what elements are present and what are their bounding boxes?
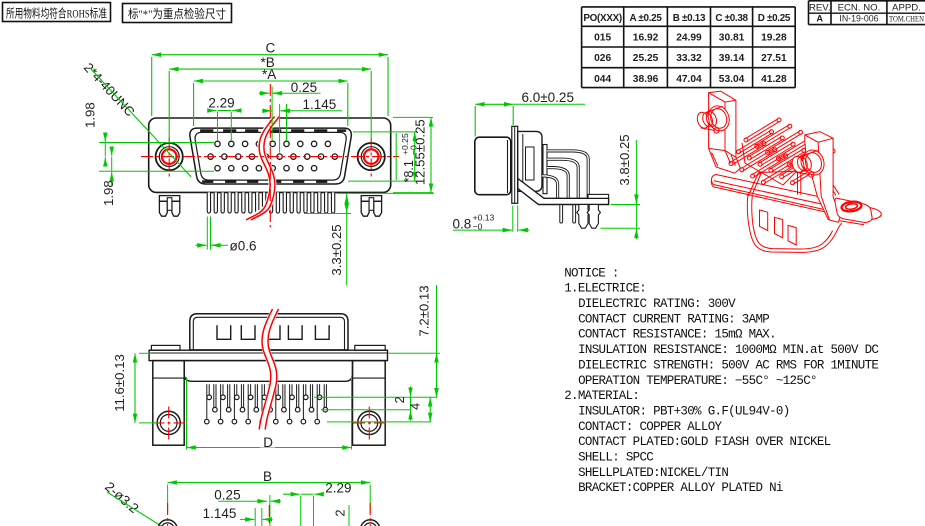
svg-text:IN-19-006: IN-19-006 <box>839 14 878 24</box>
side view shell inner edge <box>507 140 509 193</box>
svg-text:3.8±0.25: 3.8±0.25 <box>617 134 632 185</box>
svg-text:C: C <box>266 41 276 56</box>
svg-text:A: A <box>816 14 823 24</box>
svg-text:SHELL: SPCC: SHELL: SPCC <box>578 451 653 465</box>
svg-text:DIELECTRIC RATING: 300V: DIELECTRIC RATING: 300V <box>578 297 736 311</box>
dimension 2 back view <box>321 387 411 421</box>
svg-text:33.32: 33.32 <box>676 53 702 64</box>
revision table <box>809 1 925 25</box>
svg-text:ø0.6: ø0.6 <box>230 238 257 253</box>
svg-text:026: 026 <box>594 53 611 64</box>
svg-text:11.6±0.13: 11.6±0.13 <box>112 354 127 412</box>
back view flange strip <box>149 350 387 360</box>
side view solder tails <box>560 205 576 224</box>
dimension 4 back view <box>327 397 431 422</box>
thread callout 2*4-40UNC <box>81 60 191 177</box>
side view bracket and base plate <box>518 179 609 205</box>
dimension ø0.6 <box>196 217 257 254</box>
svg-text:ECN. NO.: ECN. NO. <box>838 2 881 13</box>
svg-text:39.14: 39.14 <box>719 53 745 64</box>
svg-text:CONTACT PLATED:GOLD FIASH OVER: CONTACT PLATED:GOLD FIASH OVER NICKEL <box>578 435 831 449</box>
left board bracket foot <box>159 196 179 217</box>
3D shell tub <box>747 194 841 253</box>
side view shell <box>475 137 511 195</box>
bottom view left hole <box>158 503 177 526</box>
svg-text:OPERATION TEMPERATURE: −55C° ~: OPERATION TEMPERATURE: −55C° ~125C° <box>578 374 817 388</box>
dimension 0.8 +0.13/-0 <box>453 206 530 232</box>
dimension 7.2±0.13 <box>314 285 440 397</box>
svg-text:标"*"为重点检验尺寸: 标"*"为重点检验尺寸 <box>128 6 226 21</box>
svg-text:A ±0.25: A ±0.25 <box>630 13 663 24</box>
svg-text:2.29: 2.29 <box>208 96 234 111</box>
3D insulator edges among pins <box>742 143 801 185</box>
3D shell slots <box>760 210 768 231</box>
svg-text:4: 4 <box>409 403 423 410</box>
bottom view right hole <box>361 503 380 526</box>
svg-text:B: B <box>263 469 272 484</box>
side view insulator body <box>518 131 542 191</box>
dimension 0.25 top <box>259 80 321 141</box>
svg-text:53.04: 53.04 <box>719 74 745 85</box>
svg-text:CONTACT: COPPER ALLOY: CONTACT: COPPER ALLOY <box>578 420 722 434</box>
svg-text:25.25: 25.25 <box>633 53 659 64</box>
left mounting hole <box>156 143 183 170</box>
svg-text:CONTACT CURRENT RATING: 3AMP: CONTACT CURRENT RATING: 3AMP <box>578 312 769 326</box>
svg-text:2.29: 2.29 <box>325 481 351 496</box>
dimension C <box>152 41 388 117</box>
dimension 3.8±0.25 <box>601 134 641 239</box>
bottom view centerline <box>268 505 270 526</box>
dimension 2 bottom <box>334 505 350 526</box>
side view flange plate <box>512 126 518 203</box>
svg-text:D ±0.25: D ±0.25 <box>758 13 791 24</box>
insert edge dashes <box>200 131 346 182</box>
dimension 1.145 bottom <box>203 506 273 526</box>
svg-text:2.MATERIAL:: 2.MATERIAL: <box>564 389 639 403</box>
side view insulator recess <box>526 147 535 180</box>
svg-text:1.145: 1.145 <box>303 97 337 112</box>
svg-text:16.92: 16.92 <box>633 33 659 44</box>
back view left bracket column <box>153 361 184 446</box>
right hole centerline <box>370 138 372 177</box>
svg-text:−0: −0 <box>473 222 483 232</box>
front view flange outline <box>149 118 391 192</box>
side view bent pins <box>542 151 588 198</box>
svg-text:APPD.: APPD. <box>892 2 921 13</box>
svg-text:30.81: 30.81 <box>719 33 745 44</box>
dimension 3.3±0.25 <box>304 193 434 285</box>
back view break right curve <box>265 309 278 430</box>
break line right curve <box>251 117 280 221</box>
back view notches <box>217 325 329 339</box>
3D right bracket pad <box>835 198 872 223</box>
svg-text:INSULATOR: PBT+30% G.F(UL94V-0: INSULATOR: PBT+30% G.F(UL94V-0) <box>578 405 789 419</box>
svg-text:INSULATION RESISTANCE: 1000MΩ: INSULATION RESISTANCE: 1000MΩ MIN.at 500… <box>578 343 878 357</box>
3D right screw post <box>800 147 827 178</box>
dimension *B <box>169 55 371 140</box>
svg-text:12.55±0.25: 12.55±0.25 <box>413 119 428 185</box>
side view board lock <box>577 205 601 229</box>
dimension 1.98 pair <box>83 102 215 206</box>
3D left screw post <box>705 103 732 134</box>
3D right bracket <box>805 132 841 223</box>
svg-text:3.3±0.25: 3.3±0.25 <box>329 224 344 275</box>
svg-text:0.25: 0.25 <box>214 488 240 503</box>
svg-text:19.28: 19.28 <box>761 33 787 44</box>
svg-text:044: 044 <box>594 74 611 85</box>
dimension 11.6±0.13 <box>112 353 158 423</box>
right mounting hole <box>358 143 385 170</box>
side view plate end tab <box>588 194 609 198</box>
svg-text:*A: *A <box>262 67 276 82</box>
svg-text:0.25: 0.25 <box>291 80 317 95</box>
dimension D <box>187 377 352 450</box>
front view D-insert outer <box>190 128 351 184</box>
dimension 2.29 top <box>208 96 242 141</box>
right board bracket foot <box>361 196 381 217</box>
horizontal centerline front view <box>141 156 399 158</box>
break line left curve <box>246 117 275 221</box>
svg-text:DIELECTRIC STRENGTH: 500V AC R: DIELECTRIC STRENGTH: 500V AC RMS FOR 1MI… <box>578 358 878 372</box>
break line mask <box>249 117 278 221</box>
svg-text:24.99: 24.99 <box>676 33 702 44</box>
svg-text:TOM.CHEN: TOM.CHEN <box>889 14 924 24</box>
back view break left curve <box>259 309 272 430</box>
svg-text:27.51: 27.51 <box>761 53 787 64</box>
svg-text:1.98: 1.98 <box>101 180 116 206</box>
3D screw hole <box>841 200 862 212</box>
vertical centerline front view <box>269 84 271 228</box>
svg-text:2: 2 <box>393 396 407 403</box>
svg-text:SHELLPLATED:NICKEL/TIN: SHELLPLATED:NICKEL/TIN <box>578 466 728 480</box>
svg-text:1.ELECTRICE:: 1.ELECTRICE: <box>564 282 646 296</box>
svg-text:47.04: 47.04 <box>676 74 702 85</box>
front view D-insert inner <box>195 132 346 180</box>
dimension 12.55±0.25 <box>393 117 433 192</box>
back view flange tabs <box>151 345 385 350</box>
ROHS note box <box>3 3 111 22</box>
3D base plank <box>711 175 881 220</box>
pin holes row 3 <box>215 166 317 171</box>
svg-text:B ±0.13: B ±0.13 <box>673 13 706 24</box>
svg-text:NOTICE :: NOTICE : <box>564 266 619 280</box>
back view left bracket hole <box>153 407 186 440</box>
dimension 2.29 bottom <box>283 481 351 526</box>
svg-text:1.98: 1.98 <box>83 102 98 128</box>
key-inspection note box <box>123 4 232 23</box>
svg-text:BRACKET:COPPER ALLOY PLATED Ni: BRACKET:COPPER ALLOY PLATED Ni <box>578 481 783 495</box>
svg-text:1.145: 1.145 <box>203 506 237 521</box>
back view solder pins <box>205 384 328 424</box>
svg-text:REV.: REV. <box>809 2 831 13</box>
dimension 0.25 bottom <box>214 488 281 526</box>
svg-text:CONTACT RESISTANCE: 15mΩ MAX.: CONTACT RESISTANCE: 15mΩ MAX. <box>578 328 776 342</box>
pin holes row 1 <box>215 141 331 146</box>
3D pin bundle <box>729 118 835 185</box>
svg-text:C ±0.38: C ±0.38 <box>715 13 748 24</box>
3D shell upper edges <box>748 170 839 196</box>
svg-text:015: 015 <box>594 33 611 44</box>
dimension *8.1 +0.25/-0 <box>348 132 419 183</box>
svg-text:D: D <box>263 435 273 450</box>
solder pin comb <box>207 192 335 213</box>
svg-text:0.8: 0.8 <box>453 216 472 231</box>
notice text block <box>564 266 878 495</box>
dimension *A <box>194 67 348 126</box>
pin holes row 2 <box>208 154 338 159</box>
hole callout 2-ø3.2 <box>102 479 166 526</box>
PO size table <box>582 7 796 88</box>
back view insulator body <box>184 361 352 382</box>
dimension 6.0±0.25 <box>475 90 585 137</box>
svg-text:6.0±0.25: 6.0±0.25 <box>522 90 574 105</box>
left hole centerline <box>168 138 170 177</box>
back view right bracket column <box>353 361 386 446</box>
svg-text:38.96: 38.96 <box>633 74 659 85</box>
svg-text:2: 2 <box>334 509 348 516</box>
side view insulator step <box>522 134 524 189</box>
3D left bracket <box>709 91 741 173</box>
svg-text:PO(XXX): PO(XXX) <box>583 13 622 24</box>
svg-text:41.28: 41.28 <box>761 74 787 85</box>
back view insulator top <box>190 314 348 350</box>
dimension B bottom <box>168 469 371 514</box>
back view break mask <box>262 309 275 430</box>
dimension 1.145 top <box>262 97 342 153</box>
svg-text:所用物料均符合ROHS标准: 所用物料均符合ROHS标准 <box>6 5 107 20</box>
side view pin strip <box>543 145 547 194</box>
svg-text:7.2±0.13: 7.2±0.13 <box>417 285 432 336</box>
back view right bracket hole <box>353 407 386 440</box>
